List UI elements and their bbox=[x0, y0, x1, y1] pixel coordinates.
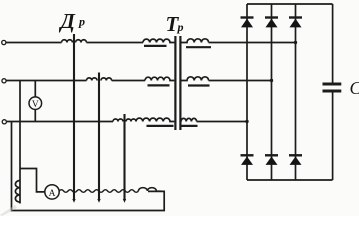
rheostat (wavy resistance wire) bbox=[59, 190, 138, 193]
junction node secondary B / leg 2 bbox=[270, 79, 273, 82]
capacitor C branch wire (bottom) bbox=[332, 93, 334, 181]
diode D1 (top, leg 1) bbox=[241, 18, 254, 28]
transformer Tr secondary winding phase B bbox=[182, 77, 209, 81]
wire phase C from terminal to choke bbox=[7, 121, 114, 123]
choke Dr phase B (saturable reactor winding) bbox=[87, 78, 112, 81]
transformer Tr primary winding phase A bbox=[143, 39, 174, 42]
choke Dr phase C (saturable reactor winding) bbox=[113, 119, 136, 121]
svg-text:C: C bbox=[350, 78, 359, 98]
diode D3 (top, leg 3) bbox=[289, 18, 302, 28]
wire secondary A to bridge leg 3 bbox=[209, 42, 296, 44]
rheostat end turns (two larger humps) bbox=[138, 188, 163, 192]
terminal 1 (phase A input) bbox=[2, 40, 6, 44]
wire secondary B to bridge leg 2 bbox=[209, 80, 272, 82]
core bar under secondary winding A bbox=[186, 46, 211, 48]
junction node secondary C / leg 1 bbox=[245, 120, 248, 123]
bridge leg 2 vertical wire bbox=[271, 4, 273, 180]
core bar under secondary winding C bbox=[181, 125, 198, 127]
control tap wire from choke A down to rheostat bbox=[72, 34, 75, 203]
choke Dr phase A (saturable reactor winding) bbox=[62, 40, 87, 43]
control winding feed wire (from phase B down) bbox=[19, 81, 21, 204]
wire secondary C to bridge leg 1 bbox=[197, 121, 247, 123]
label Tr (transformer designator) bbox=[166, 12, 184, 36]
control tap wire from choke B down to rheostat bbox=[97, 73, 100, 203]
voltmeter branch wire lower bbox=[34, 110, 36, 122]
terminal 2 (phase B input) bbox=[2, 79, 6, 83]
diode D4 (bottom, leg 1) bbox=[241, 155, 254, 165]
junction node secondary A / leg 3 bbox=[294, 41, 297, 44]
control winding (vertical coil at bottom left) bbox=[15, 181, 20, 203]
svg-text:Д: Д bbox=[59, 9, 76, 33]
transformer Tr primary winding phase B bbox=[145, 77, 174, 80]
wire phase A choke to transformer bbox=[87, 42, 144, 44]
label C (capacitor) bbox=[350, 78, 359, 98]
diode D5 (bottom, leg 2) bbox=[265, 155, 278, 165]
transformer Tr secondary winding phase A bbox=[182, 39, 209, 43]
core bar under secondary winding B bbox=[188, 84, 210, 86]
scan smudge bottom-left (faint) bbox=[0, 205, 17, 216]
voltmeter branch wire upper bbox=[34, 81, 36, 97]
svg-text:р: р bbox=[177, 20, 184, 34]
bridge leg 1 vertical wire bbox=[246, 4, 248, 180]
diode D2 (top, leg 2) bbox=[265, 18, 278, 28]
transformer Tr secondary winding phase C bbox=[181, 118, 197, 121]
terminal 3 (phase C input) bbox=[2, 120, 6, 124]
diode D6 (bottom, leg 3) bbox=[289, 155, 302, 165]
voltmeter V bbox=[29, 97, 42, 110]
transformer core (double vertical lines) bbox=[175, 36, 180, 130]
transformer Tr primary winding phase C bbox=[136, 118, 174, 121]
control tap wire from choke C down to rheostat bbox=[123, 114, 126, 203]
bridge leg 3 vertical wire bbox=[295, 4, 297, 180]
capacitor C branch wire (top) bbox=[332, 4, 334, 83]
positive top bus of bridge bbox=[247, 3, 333, 5]
core bar under primary winding C bbox=[147, 125, 174, 127]
core bar under primary winding B bbox=[148, 84, 170, 86]
core bar under primary winding A bbox=[144, 45, 167, 47]
ammeter A bbox=[45, 185, 59, 199]
negative bottom bus of bridge bbox=[247, 179, 333, 181]
svg-text:р: р bbox=[78, 15, 85, 29]
control loop left wire (from phase C down and along bottom) bbox=[12, 122, 165, 211]
wire from coil to ammeter bbox=[20, 169, 45, 192]
capacitor C plates bbox=[323, 84, 342, 91]
svg-text:V: V bbox=[32, 100, 39, 110]
wire phase B choke to transformer bbox=[112, 80, 145, 82]
label Dr (choke designator) bbox=[59, 9, 86, 33]
svg-text:A: A bbox=[49, 189, 56, 199]
wire phase B from terminal to choke bbox=[6, 80, 86, 82]
wire phase A from terminal to choke bbox=[6, 42, 62, 44]
